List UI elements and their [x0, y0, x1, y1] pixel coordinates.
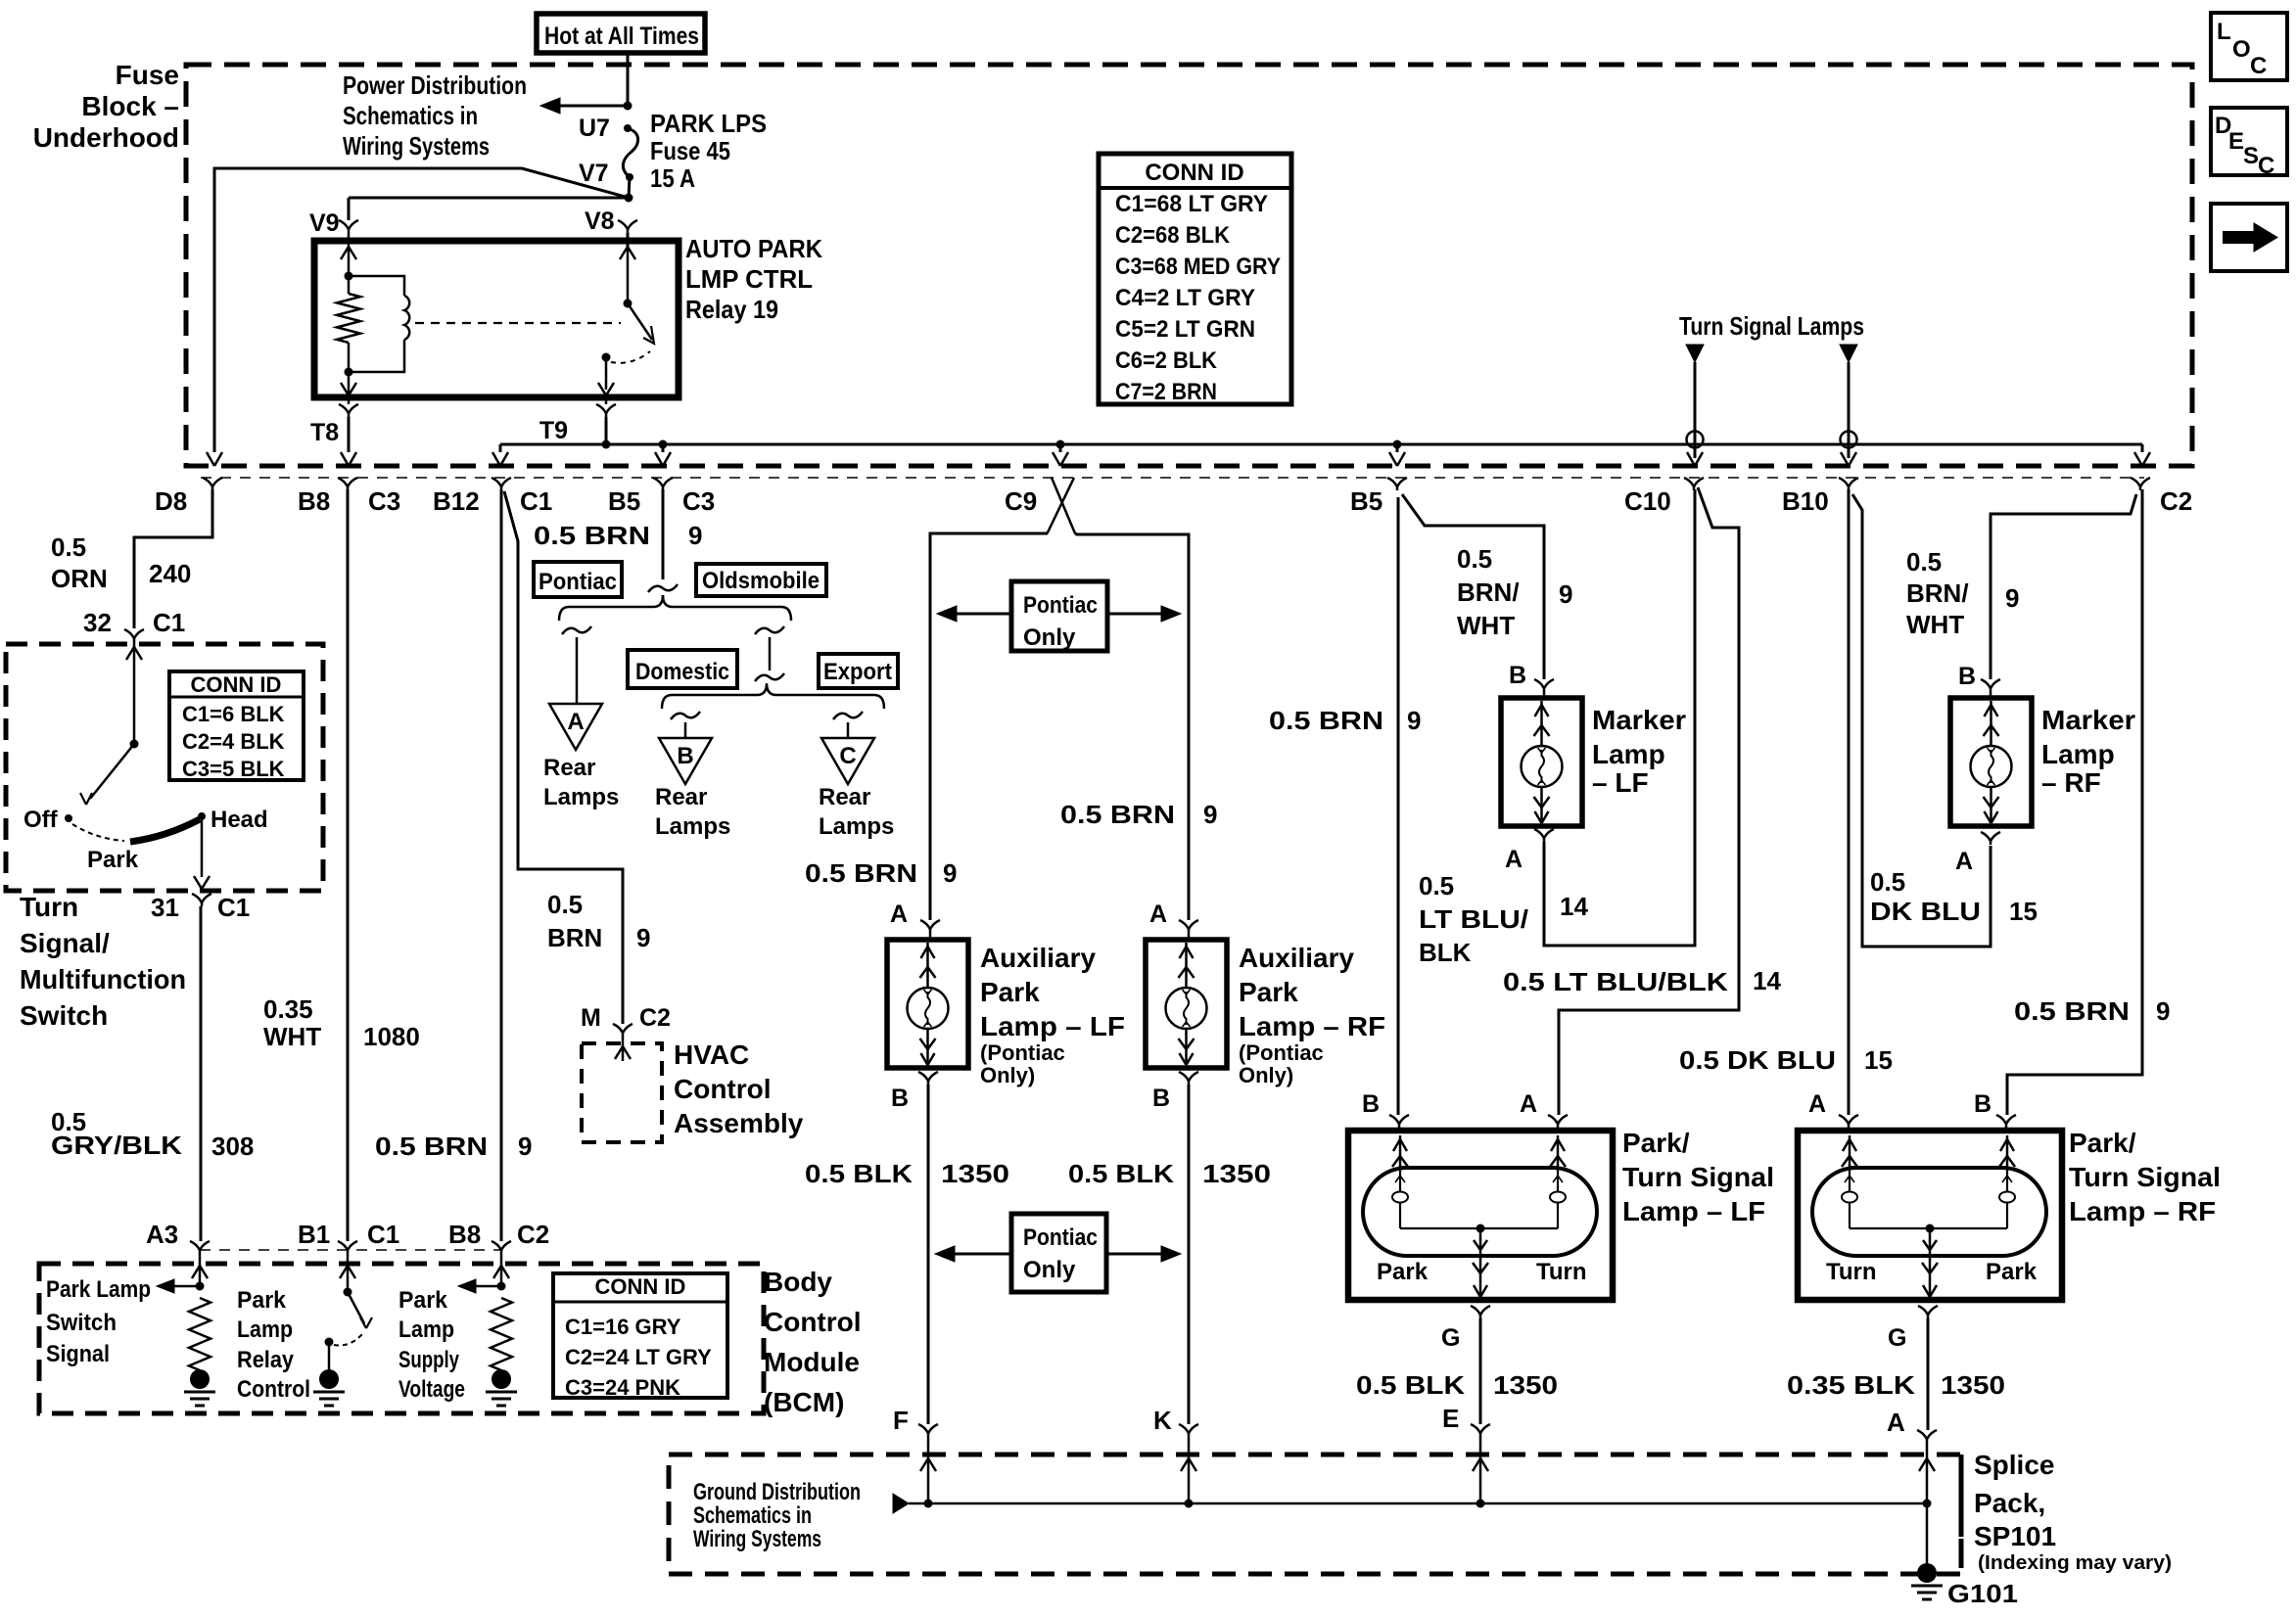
ground distribution dashed box	[669, 1455, 1961, 1574]
svg-text:K: K	[1153, 1406, 1172, 1435]
lamp: Auxiliary Park Lamp - RF	[1188, 933, 1191, 940]
svg-text:0.5: 0.5	[51, 532, 86, 562]
svg-text:Supply: Supply	[398, 1347, 459, 1373]
lamp: Auxiliary Park Lamp - LF	[929, 933, 932, 940]
svg-text:Off: Off	[23, 807, 59, 833]
node: park lamp supply voltage	[497, 1282, 506, 1291]
svg-text:Schematics in: Schematics in	[343, 101, 478, 130]
svg-text:0.5: 0.5	[1870, 867, 1905, 897]
svg-text:GRY/BLK: GRY/BLK	[51, 1131, 182, 1160]
svg-text:1080: 1080	[363, 1022, 420, 1051]
svg-text:A: A	[1505, 846, 1523, 873]
svg-text:A: A	[567, 709, 584, 735]
wire from Hot at All Times down to junction	[627, 53, 630, 106]
svg-text:F: F	[893, 1406, 909, 1435]
svg-text:31: 31	[151, 893, 179, 922]
svg-text:Turn Signal: Turn Signal	[1622, 1162, 1774, 1192]
svg-text:Lamp: Lamp	[398, 1317, 454, 1343]
svg-text:C2: C2	[2160, 486, 2192, 516]
wire F to ground bus	[927, 1437, 930, 1503]
node: junction at fuse top	[624, 102, 633, 111]
svg-text:Marker: Marker	[1592, 705, 1686, 735]
node: bus junction at B5 drop	[1393, 440, 1402, 449]
wire park/turn LF G to ground E	[1479, 1318, 1482, 1424]
relay pin V8 entry arrow	[627, 247, 630, 303]
connector V9	[339, 220, 349, 233]
wire from fuse to V8 junction	[629, 177, 630, 198]
relay switch arm	[628, 303, 652, 340]
svg-text:LT BLU/: LT BLU/	[1419, 904, 1528, 934]
node: Off contact	[65, 814, 72, 822]
connector park/turn RF B	[1996, 1115, 2006, 1128]
svg-text:9: 9	[2005, 583, 2019, 613]
svg-text:Park: Park	[980, 977, 1040, 1007]
lamp: Park/Turn Signal Lamp - LF	[1398, 1128, 1401, 1131]
connector table: CONN ID (BCM)	[553, 1273, 727, 1398]
svg-text:B12: B12	[433, 486, 480, 516]
svg-text:14: 14	[1560, 892, 1588, 921]
variant box: Pontiac Only (top)	[1011, 581, 1107, 651]
BCM A3 entry arrow	[199, 1254, 202, 1286]
connector 31/C1	[192, 894, 202, 906]
bus hop-over loop RF	[1841, 432, 1857, 448]
svg-text:B: B	[677, 743, 693, 769]
svg-text:C: C	[2258, 153, 2274, 179]
bus wire inside fuse block	[500, 443, 2142, 446]
svg-text:C2=68 BLK: C2=68 BLK	[1115, 222, 1231, 249]
svg-text:Lamps: Lamps	[543, 784, 619, 810]
variant label box: Domestic	[628, 650, 737, 688]
node: Head contact	[198, 812, 206, 820]
node: relay control switch pivot	[344, 1288, 352, 1297]
svg-text:A: A	[890, 901, 908, 928]
off-page triangle: turn signal LF	[1686, 345, 1704, 362]
ground: BCM B1	[319, 1369, 339, 1389]
lamp: Park/Turn Signal Lamp - RF	[1848, 1128, 1851, 1131]
connector marker LF B	[1534, 679, 1544, 692]
svg-text:A: A	[1887, 1408, 1905, 1437]
svg-text:9: 9	[636, 923, 650, 952]
wire B5 straight down to park/turn LF B	[1397, 497, 1400, 1115]
variant box: Pontiac Only (bottom)	[1011, 1214, 1106, 1292]
relay pin T8 exit arrow	[348, 376, 351, 395]
wire B10 straight down to park/turn RF A	[1848, 489, 1851, 1115]
connector park/turn LF A	[1548, 1115, 1558, 1128]
svg-text:A3: A3	[146, 1220, 178, 1249]
svg-text:Lamp: Lamp	[1592, 739, 1665, 769]
svg-text:15: 15	[2009, 897, 2038, 926]
svg-text:C: C	[839, 743, 856, 769]
svg-text:C1=68 LT GRY: C1=68 LT GRY	[1115, 191, 1268, 217]
svg-text:Wiring Systems: Wiring Systems	[343, 131, 490, 161]
HVAC pin entry arrow	[622, 1037, 625, 1061]
svg-text:Signal/: Signal/	[20, 928, 110, 958]
svg-text:LMP CTRL: LMP CTRL	[685, 264, 813, 294]
svg-text:0.5 BRN: 0.5 BRN	[1269, 706, 1383, 735]
relay pin V9 entry arrow	[348, 233, 351, 276]
svg-text:Switch: Switch	[20, 1000, 108, 1031]
Pontiac-only right arrow	[1107, 613, 1163, 616]
svg-text:C2: C2	[517, 1220, 549, 1249]
svg-text:0.5 BRN: 0.5 BRN	[805, 858, 917, 888]
connector F	[918, 1424, 928, 1437]
svg-text:Lamp: Lamp	[237, 1317, 293, 1343]
wire D8 to turn signal switch	[134, 489, 212, 628]
svg-text:Rear: Rear	[655, 784, 707, 810]
connector marker RF B	[1981, 679, 1991, 692]
svg-text:0.5 BRN: 0.5 BRN	[375, 1132, 488, 1161]
svg-text:C1: C1	[520, 486, 552, 516]
svg-text:BLK: BLK	[1419, 938, 1472, 967]
BCM pull resistor (B8)	[491, 1298, 512, 1370]
wire bus left end down to C1	[499, 444, 502, 452]
connector T9	[605, 397, 608, 404]
svg-text:Turn: Turn	[1826, 1259, 1877, 1285]
svg-text:B: B	[1974, 1090, 1991, 1118]
BCM pull resistor (A3)	[189, 1298, 211, 1370]
page-break squiggle on rear lamp feed	[648, 584, 678, 592]
svg-text:A: A	[1520, 1090, 1537, 1118]
svg-text:D8: D8	[155, 486, 187, 516]
svg-text:14: 14	[1753, 966, 1781, 995]
svg-text:308: 308	[211, 1132, 254, 1161]
legend box LOC	[2211, 13, 2287, 80]
connector B5	[1387, 478, 1397, 490]
svg-text:Park Lamp: Park Lamp	[46, 1276, 151, 1303]
connector C9 double-splice X	[1052, 478, 1075, 533]
svg-text:AUTO PARK: AUTO PARK	[685, 234, 822, 263]
connector table: CONN ID (fuse block)	[1099, 154, 1291, 404]
svg-text:15: 15	[1864, 1045, 1893, 1075]
svg-text:0.5 BLK: 0.5 BLK	[1356, 1370, 1465, 1400]
thin dashed harness line below fuse block	[201, 477, 2144, 479]
connector BCM B1	[338, 1241, 348, 1254]
svg-text:Oldsmobile: Oldsmobile	[702, 568, 820, 594]
fuse F45 PARK LPS 15A symbol	[624, 124, 632, 132]
svg-text:Multifunction: Multifunction	[20, 964, 186, 994]
node: splice junction	[1923, 1500, 1932, 1508]
connector C10	[1684, 478, 1694, 490]
wire Pontiac limb to triangle A	[576, 637, 579, 704]
wire contact to T9 pin	[605, 357, 608, 390]
svg-text:Lamp – RF: Lamp – RF	[1239, 1011, 1385, 1041]
svg-text:Hot at All Times: Hot at All Times	[544, 23, 699, 50]
svg-text:Pontiac: Pontiac	[1023, 1224, 1098, 1251]
node: K ground junction	[1185, 1500, 1194, 1508]
ground bus wire	[909, 1502, 1927, 1505]
connector aux LF A	[920, 920, 930, 933]
connector B10	[1839, 478, 1849, 490]
svg-text:Fuse 45: Fuse 45	[650, 136, 730, 165]
wire B8 to BCM B1 (0.35 WHT 1080)	[347, 489, 350, 1241]
svg-text:9: 9	[943, 858, 957, 888]
connector C1 (B12)	[492, 478, 501, 490]
svg-text:CONN ID: CONN ID	[595, 1274, 686, 1299]
svg-text:B: B	[1509, 662, 1526, 689]
BCM B8 entry arrow	[500, 1254, 503, 1286]
svg-text:C2: C2	[639, 1004, 671, 1032]
svg-text:32: 32	[83, 608, 112, 637]
svg-text:Schematics in: Schematics in	[693, 1502, 812, 1529]
svg-text:A: A	[1955, 848, 1973, 875]
svg-text:(Pontiac: (Pontiac	[980, 1040, 1065, 1065]
svg-text:0.5 BRN: 0.5 BRN	[2014, 996, 2130, 1026]
svg-text:Pack,: Pack,	[1974, 1488, 2045, 1518]
connector aux RF A	[1179, 920, 1189, 933]
svg-text:M: M	[581, 1004, 601, 1032]
svg-text:0.5 DK BLU: 0.5 DK BLU	[1679, 1045, 1836, 1075]
svg-text:Pontiac: Pontiac	[1023, 592, 1098, 619]
svg-text:9: 9	[518, 1132, 532, 1161]
svg-text:Auxiliary: Auxiliary	[1239, 943, 1354, 973]
switch arm to Off	[90, 744, 134, 799]
body control module dashed box	[39, 1264, 764, 1413]
svg-text:Park: Park	[237, 1287, 287, 1314]
svg-text:V8: V8	[585, 208, 615, 235]
svg-text:Domestic: Domestic	[635, 659, 729, 685]
svg-text:(Indexing may vary): (Indexing may vary)	[1978, 1552, 2172, 1574]
node: relay switch contact	[602, 353, 611, 362]
svg-text:G: G	[1888, 1324, 1906, 1352]
svg-text:Park: Park	[87, 847, 139, 873]
connector C2	[2131, 478, 2140, 490]
variant label box: Pontiac	[534, 562, 622, 597]
svg-text:0.5 BRN: 0.5 BRN	[534, 521, 650, 550]
svg-text:Control: Control	[764, 1307, 862, 1337]
switch wiper thick arc (Park)	[130, 819, 200, 842]
wire aux RF B to ground K	[1188, 1085, 1191, 1424]
svg-text:B8: B8	[298, 486, 330, 516]
node: park lamp switch signal	[196, 1282, 205, 1291]
wire Head contact down out of switch	[201, 820, 204, 877]
wire Domestic limb to triangle B	[684, 722, 687, 738]
wire bus right end down to C2	[2141, 444, 2144, 452]
svg-text:0.5: 0.5	[547, 890, 583, 919]
svg-text:Lamp – RF: Lamp – RF	[2069, 1196, 2216, 1226]
svg-text:Relay: Relay	[237, 1347, 295, 1373]
svg-text:1350: 1350	[1202, 1159, 1271, 1188]
svg-text:Control: Control	[237, 1376, 310, 1403]
svg-text:C3: C3	[368, 486, 400, 516]
connector K	[1179, 1424, 1189, 1437]
svg-text:C4=2 LT GRY: C4=2 LT GRY	[1115, 285, 1255, 311]
svg-text:PARK LPS: PARK LPS	[650, 109, 767, 138]
node: bus junction at C9 drop	[1056, 440, 1065, 449]
connector A (splice)	[1917, 1430, 1927, 1443]
svg-text:U7: U7	[579, 115, 610, 142]
power label box: Hot at All Times	[537, 14, 705, 53]
svg-text:Park: Park	[398, 1287, 448, 1314]
svg-text:B8: B8	[448, 1220, 481, 1249]
svg-text:0.5: 0.5	[1457, 544, 1492, 574]
svg-text:V7: V7	[579, 160, 609, 187]
svg-text:– RF: – RF	[2041, 767, 2101, 798]
node: relay control contact	[325, 1338, 334, 1347]
split brace Pontiac/Oldsmobile	[559, 595, 791, 621]
svg-text:C1=6 BLK: C1=6 BLK	[182, 702, 285, 726]
svg-text:Block –: Block –	[81, 91, 179, 121]
svg-text:Lamps: Lamps	[655, 813, 730, 840]
connector M/C2	[613, 1024, 623, 1037]
svg-text:C6=2 BLK: C6=2 BLK	[1115, 347, 1218, 374]
svg-text:Auxiliary: Auxiliary	[980, 943, 1096, 973]
svg-text:WHT: WHT	[1457, 611, 1515, 640]
svg-text:C9: C9	[1005, 486, 1037, 516]
svg-text:Ground Distribution: Ground Distribution	[693, 1479, 861, 1505]
svg-text:0.5 BLK: 0.5 BLK	[1068, 1159, 1174, 1188]
svg-text:C5=2 LT GRN: C5=2 LT GRN	[1115, 316, 1255, 343]
wire splice A to ground bus and G101	[1926, 1443, 1929, 1566]
connector V8	[618, 220, 628, 233]
Pontiac-only left arrow	[955, 613, 1011, 616]
node: T9 bus junction	[602, 440, 611, 449]
connector marker LF A	[1534, 829, 1544, 842]
svg-text:CONN ID: CONN ID	[191, 672, 282, 697]
connector table: CONN ID (switch)	[169, 671, 304, 780]
svg-text:C3=68 MED GRY: C3=68 MED GRY	[1115, 254, 1281, 280]
BCM internal arrow: Park Lamp Supply Voltage	[465, 1285, 501, 1288]
svg-text:Underhood: Underhood	[33, 122, 179, 153]
svg-text:Only: Only	[1023, 1257, 1076, 1283]
wire bus to B5 connector	[1396, 444, 1399, 452]
svg-text:(Pontiac: (Pontiac	[1239, 1040, 1324, 1065]
svg-text:Pontiac: Pontiac	[539, 569, 617, 595]
svg-text:C2=4 BLK: C2=4 BLK	[182, 729, 285, 754]
splice pack dashed edge	[1959, 1455, 1964, 1574]
svg-text:E: E	[1442, 1404, 1459, 1433]
svg-text:– LF: – LF	[1592, 767, 1649, 798]
switch pin entry arrow	[133, 642, 136, 744]
svg-text:B: B	[1152, 1085, 1170, 1112]
connector C3 (B5)	[653, 478, 663, 490]
connector park/turn LF B	[1389, 1115, 1399, 1128]
node: bus junction at C3 drop	[659, 440, 668, 449]
wire branch to V9	[349, 197, 629, 200]
wire park/turn RF G to splice pack A	[1927, 1318, 1930, 1430]
svg-text:C1: C1	[217, 893, 250, 922]
relay resistor	[348, 276, 351, 294]
off-page ground arrow	[893, 1494, 909, 1513]
fuse block underhood dashed box	[186, 65, 2192, 466]
svg-text:Fuse: Fuse	[116, 60, 179, 90]
svg-text:Lamps: Lamps	[819, 813, 894, 840]
node: relay switch pivot	[624, 300, 633, 308]
svg-text:Only: Only	[1023, 624, 1076, 651]
node: E ground junction	[1476, 1500, 1485, 1508]
wire turn signal RF down through bus hop	[1848, 362, 1851, 458]
svg-text:C: C	[2250, 53, 2267, 79]
svg-text:Wiring Systems: Wiring Systems	[693, 1526, 821, 1552]
svg-text:15 A: 15 A	[650, 163, 695, 193]
HVAC control assembly dashed box	[582, 1043, 662, 1142]
node: relay coil top	[345, 272, 353, 281]
svg-text:A: A	[1149, 901, 1167, 928]
svg-text:BRN/: BRN/	[1457, 577, 1520, 607]
svg-text:Assembly: Assembly	[674, 1108, 804, 1138]
svg-text:Turn Signal: Turn Signal	[2069, 1162, 2221, 1192]
node: switch pivot	[130, 740, 139, 749]
connector marker RF A	[1981, 832, 1991, 845]
svg-text:Turn: Turn	[20, 892, 78, 922]
svg-text:9: 9	[1203, 800, 1217, 829]
off-page arrow to power distribution	[558, 105, 628, 108]
lamp: Marker Lamp - RF	[1950, 698, 2032, 826]
wire K to ground bus	[1188, 1437, 1191, 1503]
svg-text:9: 9	[688, 521, 702, 550]
wire V8 into relay	[627, 233, 630, 247]
svg-text:E: E	[2228, 128, 2244, 155]
svg-text:9: 9	[2156, 996, 2170, 1026]
connector BCM A3	[190, 1241, 200, 1254]
svg-text:Head: Head	[211, 807, 268, 833]
svg-text:B: B	[1958, 663, 1976, 690]
svg-text:C2=24 LT GRY: C2=24 LT GRY	[565, 1345, 712, 1369]
variant label box: Export	[819, 654, 898, 688]
svg-text:Lamp – LF: Lamp – LF	[980, 1011, 1125, 1041]
svg-text:9: 9	[1407, 706, 1421, 735]
connector aux RF B	[1179, 1072, 1189, 1085]
svg-text:ORN: ORN	[51, 564, 108, 593]
svg-text:Only): Only)	[980, 1063, 1035, 1087]
ground: BCM B8	[492, 1369, 511, 1389]
svg-text:DK BLU: DK BLU	[1870, 897, 1981, 926]
svg-text:Turn Signal Lamps: Turn Signal Lamps	[1679, 311, 1864, 341]
svg-text:WHT: WHT	[1906, 610, 1964, 639]
svg-text:B10: B10	[1782, 486, 1829, 516]
connector 32/C1	[124, 629, 134, 642]
wire marker LF A jog up to C10	[1544, 489, 1695, 946]
wire E to ground bus	[1479, 1437, 1482, 1503]
svg-text:C3: C3	[682, 486, 715, 516]
svg-text:Marker: Marker	[2041, 705, 2135, 735]
svg-text:0.5 BLK: 0.5 BLK	[805, 1159, 913, 1188]
off-page triangle C rear lamps	[821, 738, 874, 784]
legend box off-page arrow	[2211, 204, 2287, 271]
wire T9 down to bus	[605, 417, 608, 444]
thin dashed harness line above BCM	[200, 1249, 501, 1251]
wire contact to ground	[328, 1342, 331, 1370]
svg-text:L: L	[2217, 19, 2231, 45]
wire C2 diagonal to marker RF B feeder	[1991, 494, 2136, 679]
off-page triangle B rear lamps	[659, 738, 712, 784]
wire T8 down to B8	[348, 417, 351, 452]
Pontiac-only bottom left arrow	[953, 1253, 1011, 1256]
svg-text:0.5: 0.5	[1906, 547, 1942, 577]
wire C1 to BCM B8 (0.5 BRN 9)	[500, 489, 503, 1241]
svg-text:B: B	[1362, 1090, 1380, 1118]
connector park/turn LF G	[1471, 1306, 1480, 1318]
wire C10 diagonal to park/turn LF A	[1559, 487, 1739, 1115]
svg-text:B1: B1	[298, 1220, 330, 1249]
svg-text:0.5 LT BLU/BLK: 0.5 LT BLU/BLK	[1503, 967, 1728, 996]
wire Oldsmobile limb	[769, 637, 772, 670]
ground: BCM A3	[190, 1369, 210, 1389]
relay actuation dashed link	[415, 322, 621, 324]
wire turn signal LF down through bus hop	[1694, 362, 1697, 458]
wire C2 straight down to park/turn RF B	[2007, 489, 2142, 1115]
variant label box: Oldsmobile	[696, 564, 826, 596]
wire C3 down to rear lamp splice	[662, 489, 665, 579]
connector T8	[348, 397, 351, 404]
connector park/turn RF G	[1918, 1306, 1928, 1318]
svg-text:0.35: 0.35	[263, 994, 313, 1024]
squiggle on Export limb	[833, 712, 863, 719]
node: relay coil bottom	[345, 368, 353, 377]
turn signal / multifunction switch dashed box	[6, 644, 323, 891]
svg-text:Switch: Switch	[46, 1310, 117, 1336]
svg-text:Park/: Park/	[1622, 1128, 1690, 1158]
svg-text:Park: Park	[1239, 977, 1298, 1007]
